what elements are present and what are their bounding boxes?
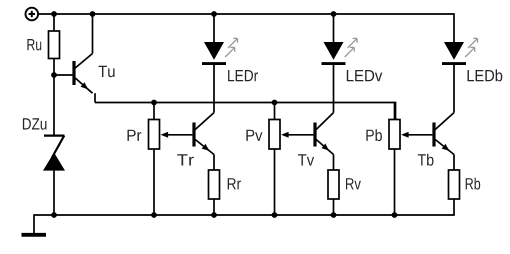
- wire Rb bottom to ground rail: [453, 199, 455, 215]
- potentiometer Pv: [269, 120, 313, 150]
- wire LEDr anode: [213, 14, 215, 43]
- node Pv top on base rail: [272, 100, 278, 106]
- node Pr bottom junction: [151, 212, 157, 218]
- wire top rail right drop to LEDb: [453, 13, 455, 42]
- node Tu base junction: [51, 72, 57, 78]
- wire Rv bottom to ground rail: [333, 199, 335, 215]
- wire Pr top: [153, 103, 155, 120]
- label Rr: [228, 178, 241, 189]
- resistor Rv: [328, 170, 339, 199]
- label Tv: [298, 154, 314, 165]
- potentiometer Pr: [149, 120, 193, 150]
- node DZu-ground junction: [51, 212, 57, 218]
- wire Tr emitter to Rr: [213, 155, 215, 171]
- wire DZu to ground rail: [53, 171, 55, 215]
- wire base-feed rail from Tu emitter: [95, 102, 396, 104]
- node Pv bottom junction: [272, 212, 278, 218]
- label Rv: [346, 178, 361, 189]
- wire Ru to DZu: [53, 59, 55, 136]
- wire Pb bottom to ground rail: [394, 149, 396, 215]
- wire Tu base: [54, 74, 72, 76]
- wire Tu collector to top rail: [92, 14, 94, 54]
- node Tu collector on top rail: [90, 11, 96, 17]
- zener diode DZu: [43, 136, 65, 171]
- resistor Ru: [49, 31, 60, 59]
- supply terminal (+): [26, 8, 39, 21]
- wire Pr bottom to ground rail: [153, 149, 155, 215]
- node Pb bottom junction: [392, 212, 398, 218]
- transistor Tu: [72, 54, 92, 94]
- node Ru top rail junction: [51, 11, 57, 17]
- node LEDv on top rail: [331, 11, 337, 17]
- wire top supply rail: [38, 13, 454, 15]
- LED LEDb: [442, 38, 478, 63]
- label Tr: [177, 154, 194, 165]
- wire LEDv cathode to Tv collector: [333, 64, 335, 113]
- node Pr top on base rail: [151, 100, 157, 106]
- transistor Tv: [313, 113, 333, 155]
- label Pb: [366, 129, 382, 141]
- transistor Tr: [192, 113, 214, 155]
- node LEDr on top rail: [211, 11, 217, 17]
- resistor Rb: [449, 170, 460, 199]
- label DZu: [23, 118, 47, 129]
- wire base rail drop to Pb top: [395, 102, 397, 120]
- wire Ru branch top: [53, 14, 55, 31]
- wire LEDb cathode to Tb collector: [453, 64, 455, 113]
- label Pv: [246, 130, 262, 141]
- wire bottom ground rail: [34, 214, 455, 216]
- wire Pv bottom to ground rail: [274, 149, 276, 215]
- wire Pb top: [394, 103, 396, 120]
- wire ground drop: [33, 214, 35, 233]
- label Tu: [99, 66, 115, 77]
- wire LEDr cathode to Tr collector: [213, 64, 215, 113]
- wire Pv top: [274, 103, 276, 120]
- resistor Rr: [209, 170, 220, 199]
- LED LEDv: [322, 38, 358, 63]
- label Ru: [27, 39, 41, 50]
- node Rv bottom junction: [331, 212, 337, 218]
- label LEDb: [468, 69, 503, 81]
- wire Tv emitter to Rv: [333, 155, 335, 171]
- node Rr bottom junction: [211, 212, 217, 218]
- label LEDv: [347, 70, 383, 81]
- wire Tu emitter drop to base rail: [94, 93, 96, 102]
- wire Rr bottom to ground rail: [213, 199, 215, 215]
- wire Tb emitter to Rb: [453, 155, 455, 171]
- label Rb: [466, 178, 481, 190]
- ground: [22, 233, 47, 237]
- label Tb: [418, 154, 434, 166]
- LED LEDr: [202, 38, 238, 63]
- transistor Tb: [432, 113, 454, 155]
- label LEDr: [228, 70, 258, 81]
- wire LEDv anode: [333, 14, 335, 43]
- label Pr: [128, 130, 142, 141]
- potentiometer Pb: [389, 120, 432, 150]
